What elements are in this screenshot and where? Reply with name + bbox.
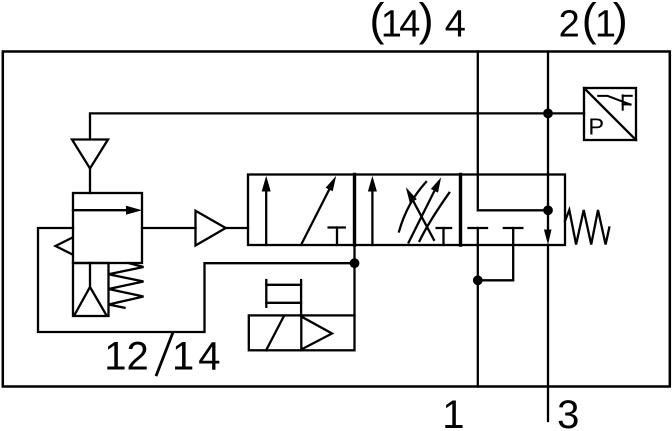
switch contact blade bbox=[598, 96, 630, 105]
junction node valve pilot 12 bbox=[350, 258, 360, 268]
junction node in chamber 3 bbox=[543, 205, 553, 215]
switch contact F mid bar bbox=[623, 103, 631, 105]
svg-text:): ) bbox=[419, 0, 434, 45]
valve divider 1 bbox=[353, 175, 356, 246]
svg-text:2: 2 bbox=[559, 4, 580, 46]
chamber1 vertical flow arrow bbox=[265, 188, 267, 245]
svg-text:P: P bbox=[588, 113, 604, 139]
wire: port 2(1) line from border down through chamber bbox=[547, 52, 549, 232]
chamber3 port bar 2 bbox=[504, 227, 523, 229]
wire: port 1 down to border bbox=[477, 280, 479, 386]
chamber2 throttle arc right bbox=[420, 193, 450, 241]
chamber2 throttle arc left bbox=[399, 182, 426, 232]
svg-text:3: 3 bbox=[557, 393, 579, 431]
relief seat funnel bbox=[75, 263, 107, 315]
valve V1 chamber 2 bbox=[355, 175, 461, 246]
solenoid box divider bbox=[300, 315, 302, 350]
wire: feedback loop left bbox=[38, 228, 355, 332]
pressure switch PS1 box bbox=[584, 88, 636, 140]
enclosure border bbox=[3, 52, 670, 387]
chamber3 port bar 1 bbox=[469, 227, 488, 229]
chamber2 crossing arrow up-right bbox=[409, 187, 437, 243]
switch contact F stem bbox=[622, 95, 624, 109]
valve V1 chamber 1 bbox=[248, 175, 355, 246]
wire: node down to solenoid box bbox=[353, 263, 355, 315]
regulator spring bbox=[109, 263, 144, 308]
regulator internal flow arrow bbox=[73, 209, 128, 211]
valve V1 chamber 3 (active) bbox=[461, 175, 566, 246]
manual override stem bbox=[300, 280, 302, 315]
chamber3 port stem to node bbox=[477, 228, 479, 280]
switch contact F top bar bbox=[623, 95, 632, 97]
valve return spring bbox=[565, 210, 609, 245]
solenoid coil slash bbox=[266, 316, 284, 350]
wire: regulator output to amplifier bbox=[142, 227, 196, 229]
svg-text:14: 14 bbox=[172, 335, 225, 379]
wire: valve bottom to node bbox=[353, 245, 355, 263]
svg-text:4: 4 bbox=[445, 4, 466, 46]
down arrow in chamber 3 bbox=[544, 230, 552, 245]
svg-text:12: 12 bbox=[104, 335, 149, 379]
chamber2 crossing arrow up-left bbox=[410, 195, 434, 240]
wire: port 3 through border bbox=[547, 245, 549, 421]
regulator R1 body bbox=[73, 193, 142, 263]
chamber1 blocked port T bbox=[329, 226, 345, 228]
port label (14)4 bbox=[370, 0, 466, 46]
wire: pilot line from regulator to node at 2(1) bbox=[90, 113, 548, 139]
wire: node to pressure switch bbox=[548, 112, 584, 114]
solenoid pilot valve box bbox=[249, 315, 355, 350]
regulator relief box bbox=[73, 263, 109, 316]
svg-text:4: 4 bbox=[399, 4, 420, 46]
pilot air triangle above regulator bbox=[72, 140, 108, 169]
svg-text:): ) bbox=[613, 0, 628, 45]
regulator open arrowhead on left edge bbox=[56, 238, 73, 255]
amplifier triangle bbox=[196, 211, 226, 246]
manual override rails bbox=[266, 284, 301, 286]
chamber1 diagonal flow arrow bbox=[301, 186, 331, 245]
manual override left bar bbox=[265, 280, 267, 307]
valve divider 2 bbox=[459, 175, 462, 246]
chamber2 blocked port T bbox=[437, 227, 452, 229]
wire: port (14)4 down from border into chamber 3 bbox=[478, 52, 548, 211]
label 12/14 slash bbox=[157, 333, 173, 375]
pressure switch diagonal bbox=[584, 88, 636, 140]
junction node below valve bbox=[473, 275, 483, 285]
chamber3 port 2 stem bbox=[478, 228, 513, 280]
port label 2(1) bbox=[559, 0, 628, 46]
label 12/14 bbox=[104, 335, 224, 379]
svg-text:1: 1 bbox=[442, 393, 464, 431]
wire: amplifier to valve port 12 bbox=[226, 227, 248, 229]
solenoid pilot triangle bbox=[301, 317, 332, 350]
junction node at pilot line and 2(1) bbox=[543, 109, 553, 119]
wire: triangle apex to regulator body bbox=[89, 169, 91, 194]
chamber2 vertical flow arrow bbox=[371, 188, 373, 245]
